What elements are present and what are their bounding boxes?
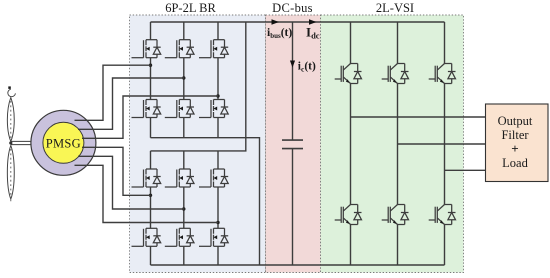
node phase L2 junction: [182, 207, 185, 210]
transistor Q1 VSI top leg1: [335, 64, 362, 84]
capacitor C plates: [282, 140, 303, 149]
wire BR leg1 segments: [150, 22, 152, 265]
region DC-bus background: [266, 15, 321, 273]
transistor S6 top-bridge row2 leg3: [199, 100, 228, 118]
wire VSI leg1 segments: [350, 22, 352, 265]
wire bottom DC- rail: [151, 264, 445, 266]
PMSG inner rotor circle: [43, 122, 84, 163]
svg-text:+: +: [511, 141, 518, 156]
node phase L1 junction: [149, 194, 152, 197]
svg-text:Load: Load: [502, 156, 528, 170]
wire rail B top of bottom bridge to vertical up: [151, 22, 246, 151]
wire BR leg3 segments: [217, 22, 219, 265]
transistor S1 top-bridge row1 leg1: [132, 40, 161, 58]
transistor S12 bottom-bridge row4 leg3: [199, 228, 228, 246]
node phase L3 junction: [216, 221, 219, 224]
wire VSI leg2 segments: [397, 22, 399, 265]
transistor S8 bottom-bridge row3 leg2: [165, 169, 194, 187]
turbine upper blade: [7, 98, 14, 142]
svg-text:DC-bus: DC-bus: [272, 1, 313, 15]
transistor S7 bottom-bridge row3 leg1: [132, 169, 161, 187]
transistor S4 top-bridge row2 leg1: [132, 100, 161, 118]
turbine blade dashed axis: [10, 101, 12, 203]
transistor Q5 VSI bottom leg2: [382, 205, 409, 225]
svg-text:ic(t): ic(t): [298, 61, 316, 74]
wire PMSG phase U3: [82, 96, 218, 138]
wire rail A bottom of top bridge to vertical down: [151, 138, 260, 265]
PMSG outer stator circle: [31, 110, 96, 175]
wire top DC+ rail: [151, 21, 445, 23]
svg-text:2L-VSI: 2L-VSI: [376, 1, 414, 15]
wire PMSG phase U1: [75, 65, 151, 120]
wire VSI phase B to output: [398, 143, 486, 145]
wire BR leg2 segments: [183, 22, 185, 265]
node phase U1 junction: [149, 63, 152, 66]
svg-text:6P-2L BR: 6P-2L BR: [165, 1, 216, 15]
transistor Q4 VSI bottom leg1: [335, 205, 362, 225]
transistor S9 bottom-bridge row3 leg3: [199, 169, 228, 187]
transistor S3 top-bridge row1 leg3: [199, 40, 228, 58]
wire VSI phase C to output: [445, 169, 486, 171]
node phase U2 junction: [182, 76, 185, 79]
transistor S2 top-bridge row1 leg2: [165, 40, 194, 58]
transistor Q3 VSI top leg3: [429, 64, 456, 84]
turbine shaft: [11, 141, 48, 144]
transistor Q6 VSI bottom leg3: [429, 205, 456, 225]
transistor S5 top-bridge row2 leg2: [165, 100, 194, 118]
node phase U3 junction: [216, 94, 219, 97]
turbine lower blade: [7, 146, 14, 200]
arrow I_dc on top rail: [309, 19, 317, 24]
transistor S11 bottom-bridge row4 leg2: [165, 228, 194, 246]
transistor S10 bottom-bridge row4 leg1: [132, 228, 161, 246]
turbine hub: [9, 141, 12, 144]
Output Filter + Load block: [486, 104, 549, 182]
region 2L-VSI background: [321, 15, 464, 273]
wire VSI leg3 segments: [444, 22, 446, 265]
wire VSI phase A to output: [351, 116, 486, 118]
svg-text:PMSG: PMSG: [46, 136, 81, 150]
wire DC-bus capacitor branch upper: [292, 22, 294, 140]
wire DC-bus capacitor branch lower: [292, 149, 294, 265]
svg-text:Output: Output: [498, 114, 533, 128]
arrow i_bus on top rail: [272, 19, 280, 24]
wire PMSG phase L1: [82, 147, 151, 195]
wind turbine rotation curl: [8, 86, 11, 89]
svg-text:Filter: Filter: [501, 128, 529, 142]
wire PMSG phase U2: [78, 78, 184, 129]
transistor Q2 VSI top leg2: [382, 64, 409, 84]
region 6P-2L BR background: [130, 15, 266, 273]
arrow i_c down: [290, 61, 295, 68]
wire PMSG phase L3: [75, 165, 219, 222]
wire PMSG phase L2: [78, 156, 184, 209]
